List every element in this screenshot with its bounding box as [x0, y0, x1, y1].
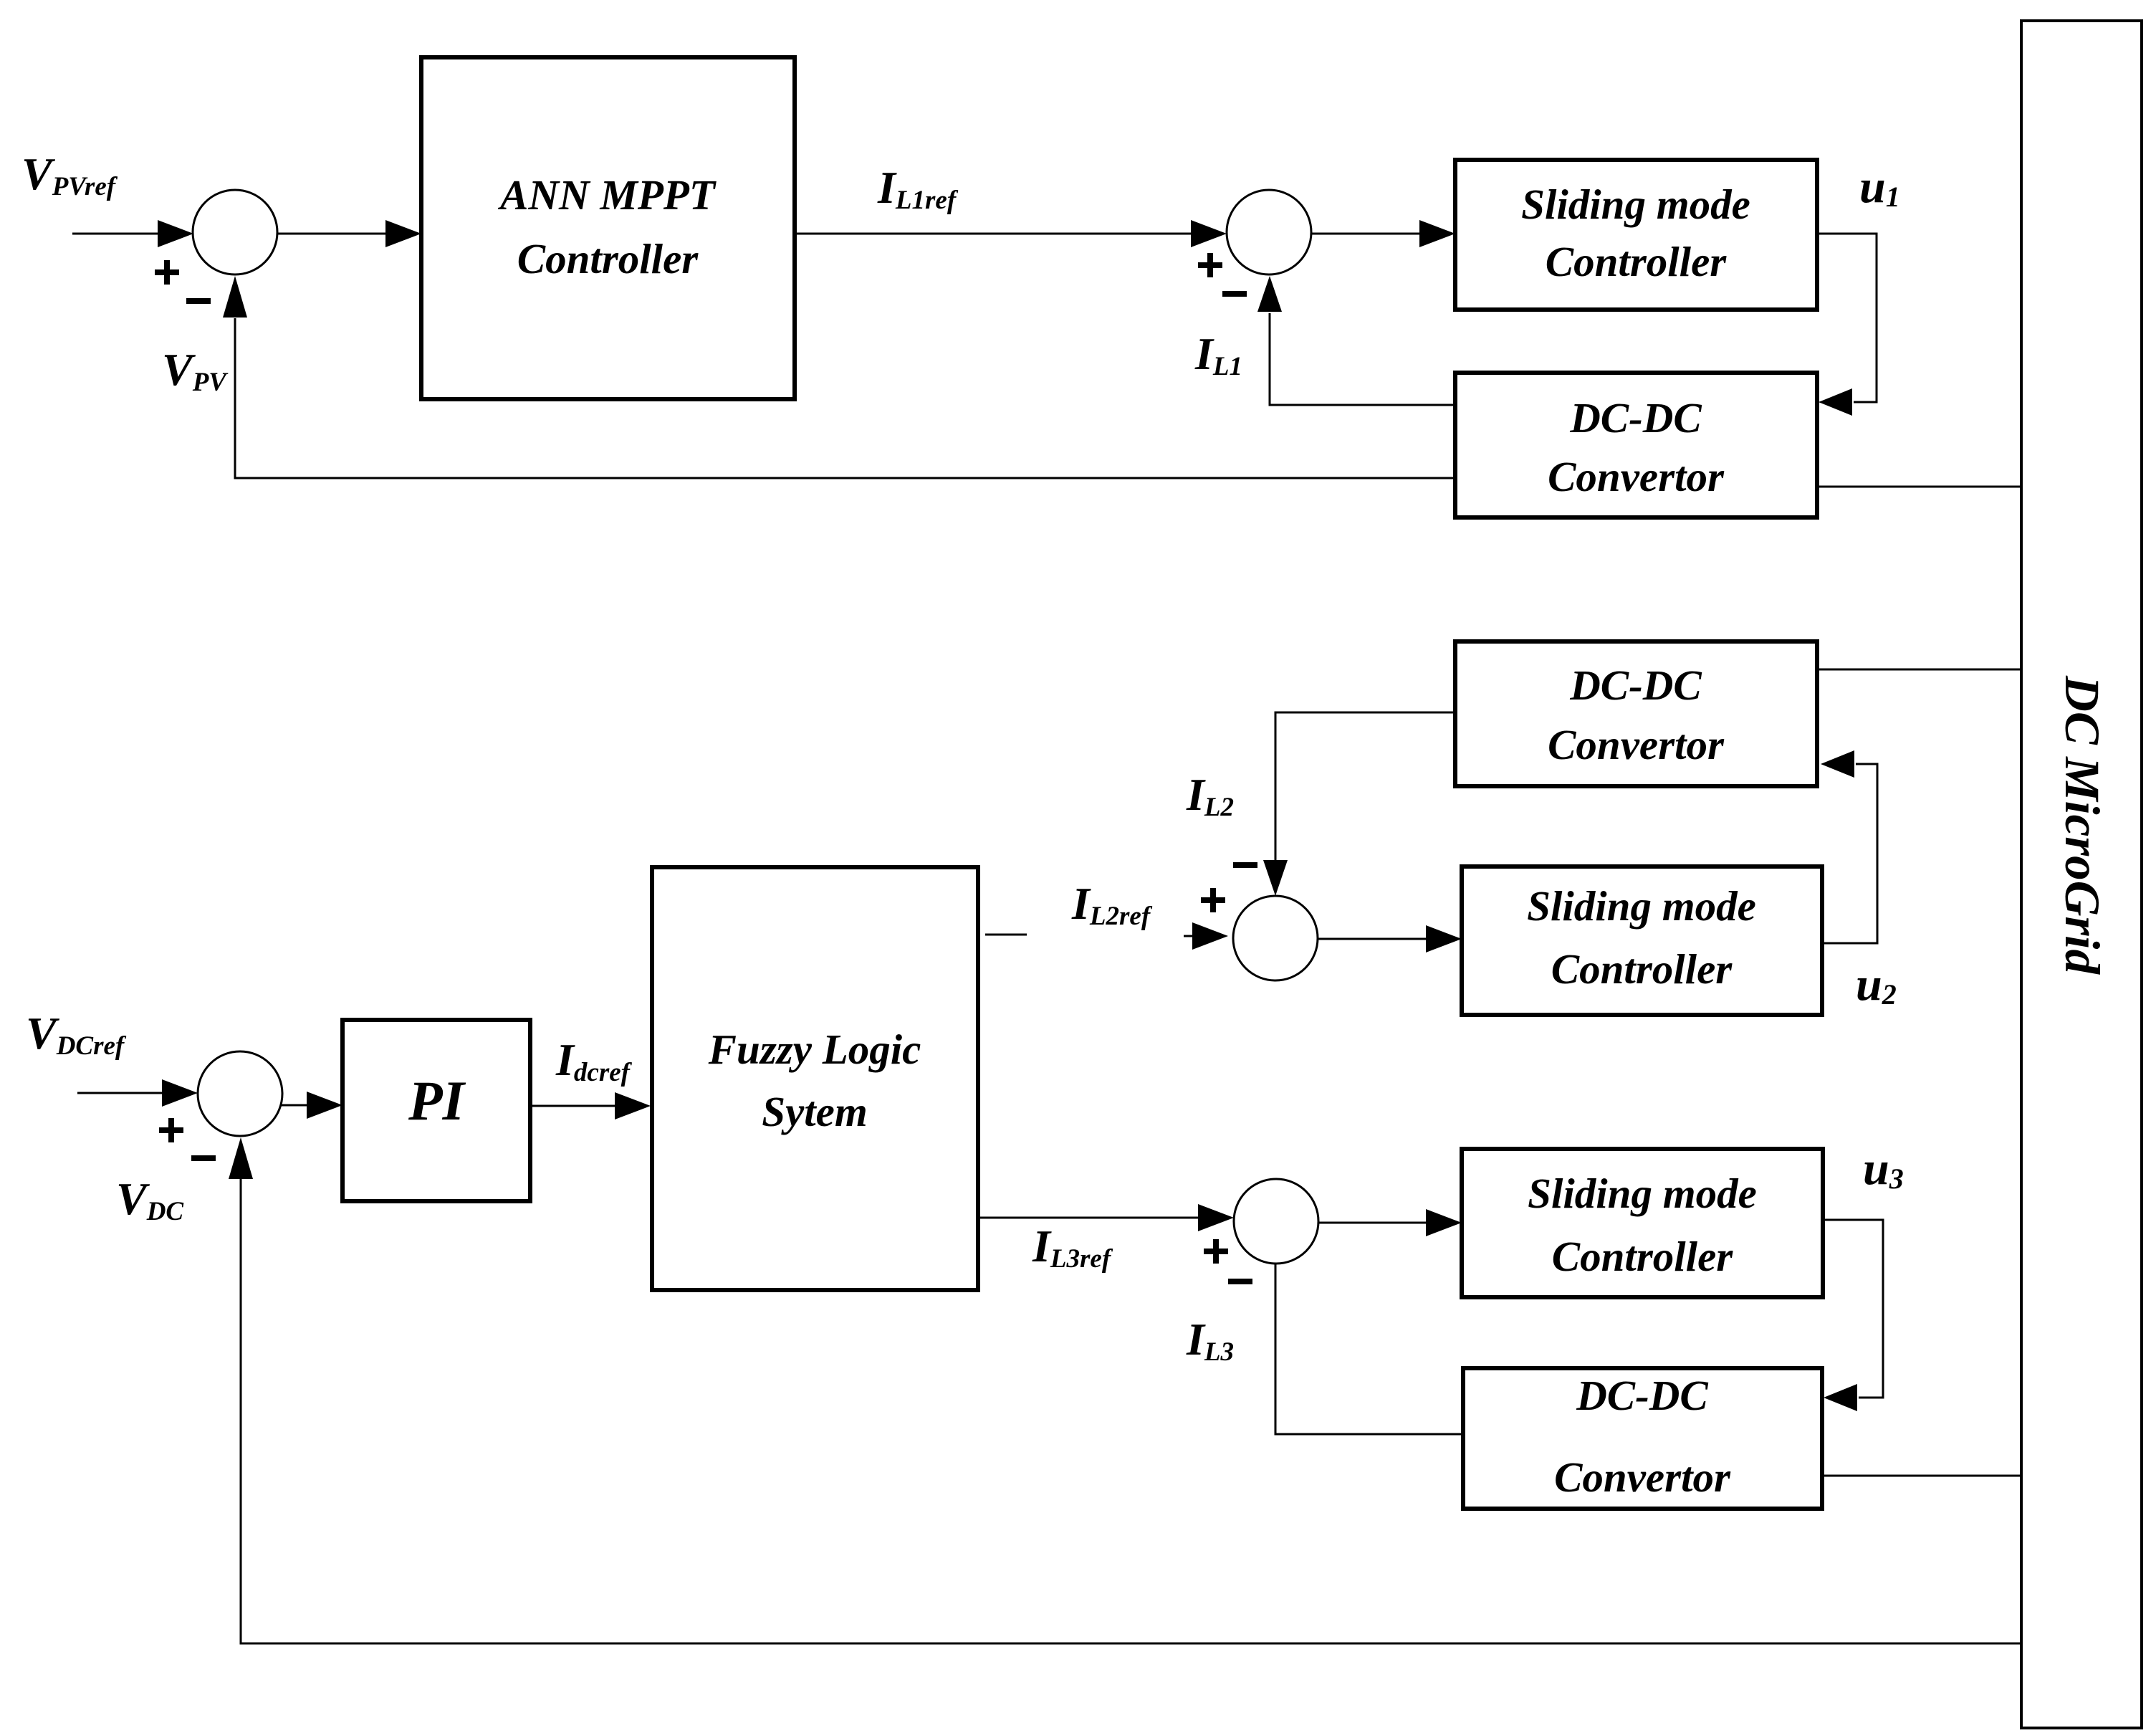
block DC-DC Convertor 1 [1455, 373, 1817, 517]
node S1 plus sign [155, 260, 179, 285]
wire S5 to Sliding mode 3 [1318, 1209, 1462, 1236]
wire VDCref input [77, 1079, 198, 1107]
block Sliding mode Controller 3 [1462, 1149, 1823, 1297]
svg-text:DC-DC: DC-DC [1569, 662, 1702, 709]
block DC-DC Convertor 2 [1455, 641, 1817, 786]
svg-text:DC-DC: DC-DC [1569, 394, 1702, 441]
wire Fuzzy IL3ref to S5 [980, 1204, 1234, 1231]
wire IL2ref into S3 [1184, 922, 1228, 950]
wire IL2 feedback DC-DC2 to S3 [1263, 712, 1455, 896]
block Sliding mode Controller 2 [1462, 866, 1822, 1015]
svg-text:Controller: Controller [517, 235, 699, 282]
wire DC-DC2 to DC MicroGrid [1817, 669, 2021, 671]
wire DC-DC3 to DC MicroGrid [1822, 1475, 2021, 1477]
svg-text:Sliding mode: Sliding mode [1521, 181, 1750, 228]
node S2 minus sign [1222, 291, 1247, 297]
svg-text:Convertor: Convertor [1554, 1453, 1731, 1501]
wire DC-DC1 to DC MicroGrid [1817, 486, 2021, 488]
node S3 plus sign [1201, 888, 1225, 912]
node S4 plus sign [159, 1118, 183, 1142]
block PI [342, 1020, 530, 1201]
block ANN MPPT Controller [421, 57, 795, 399]
wire VPV feedback DC-DC1 to S1 [223, 276, 1455, 478]
svg-text:Convertor: Convertor [1548, 721, 1725, 768]
wire u3 feedback Sliding3 to DC-DC3 [1823, 1220, 1883, 1411]
svg-text:Sliding mode: Sliding mode [1528, 1170, 1757, 1217]
wire u2 feedback Sliding2 to DC-DC2 [1821, 750, 1877, 943]
block Fuzzy Logic Sytem [652, 867, 978, 1290]
svg-text:Controller: Controller [1552, 1233, 1733, 1280]
summing junction S1 [193, 190, 277, 274]
wire PI to Fuzzy [530, 1092, 651, 1119]
wire S3 to Sliding mode 2 [1318, 925, 1462, 953]
node S5 plus sign [1204, 1239, 1228, 1264]
wire S1 to ANN MPPT [277, 220, 421, 247]
node S1 minus sign [186, 298, 211, 304]
summing junction S3 [1233, 896, 1318, 980]
node S4 minus sign [191, 1155, 216, 1161]
wire S2 to Sliding mode 1 [1311, 220, 1455, 247]
svg-text:Sytem: Sytem [762, 1088, 867, 1135]
wire S4 to PI [280, 1092, 342, 1119]
wire VPVref input [72, 220, 193, 247]
svg-text:Convertor: Convertor [1548, 453, 1725, 500]
node S5 minus sign [1228, 1279, 1252, 1284]
wire IL1 feedback DC-DC1 to S2 [1257, 276, 1455, 405]
node S2 plus sign [1198, 253, 1222, 277]
wire Fuzzy IL2ref output stub [985, 934, 1027, 936]
wire IL3 feedback S5 to DC-DC3 [1275, 1264, 1463, 1434]
svg-text:ANN MPPT: ANN MPPT [497, 171, 717, 219]
summing junction S2 [1227, 190, 1311, 274]
wire ANN MPPT to S2 [795, 220, 1227, 247]
node S3 minus sign [1233, 862, 1257, 868]
wire u1 feedback Sliding1 to DC-DC1 [1817, 234, 1877, 416]
svg-text:PI: PI [408, 1069, 466, 1132]
block Sliding mode Controller 1 [1455, 160, 1817, 310]
svg-text:Fuzzy Logic: Fuzzy Logic [708, 1026, 921, 1073]
svg-text:Controller: Controller [1551, 945, 1733, 993]
summing junction S5 [1234, 1179, 1318, 1264]
summing junction S4 [198, 1051, 282, 1136]
wire VDC feedback DC MicroGrid to S4 [229, 1137, 2021, 1643]
svg-text:Sliding mode: Sliding mode [1527, 882, 1756, 930]
block DC MicroGrid [2021, 21, 2142, 1728]
block DC-DC Convertor 3 [1463, 1368, 1822, 1509]
svg-text:Controller: Controller [1546, 238, 1727, 285]
svg-text:DC MicroGrid: DC MicroGrid [2055, 675, 2109, 975]
svg-text:DC-DC: DC-DC [1576, 1372, 1708, 1419]
